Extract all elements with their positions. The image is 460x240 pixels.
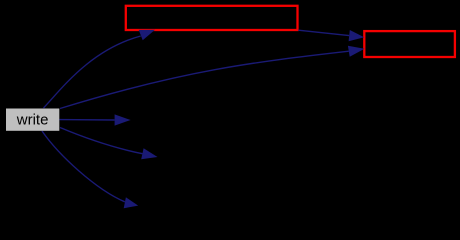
arrowhead to hidden node 3	[124, 197, 139, 208]
arrowhead to hidden node 1	[115, 114, 131, 125]
arrowhead into right red box (lower)	[348, 46, 365, 57]
node: top red box (truncated node)	[126, 6, 298, 30]
wire: edge write -> hidden node 2	[60, 128, 142, 154]
arrowhead into right red box (upper)	[349, 30, 365, 41]
wire: edge write -> hidden node 3	[42, 131, 125, 202]
wire: edge top red box -> right red box	[298, 30, 349, 35]
wire: edge write -> top red box	[44, 36, 141, 108]
arrowhead into top red box	[139, 30, 155, 41]
wire: edge write -> right red box	[60, 51, 349, 108]
arrowhead to hidden node 2	[141, 148, 157, 159]
node: write (grey root node)	[6, 109, 59, 131]
wire: edge write -> hidden node 1 (horizontal)	[59, 119, 114, 121]
svg-text:write: write	[16, 111, 49, 128]
node: right red box (truncated node)	[364, 31, 455, 57]
